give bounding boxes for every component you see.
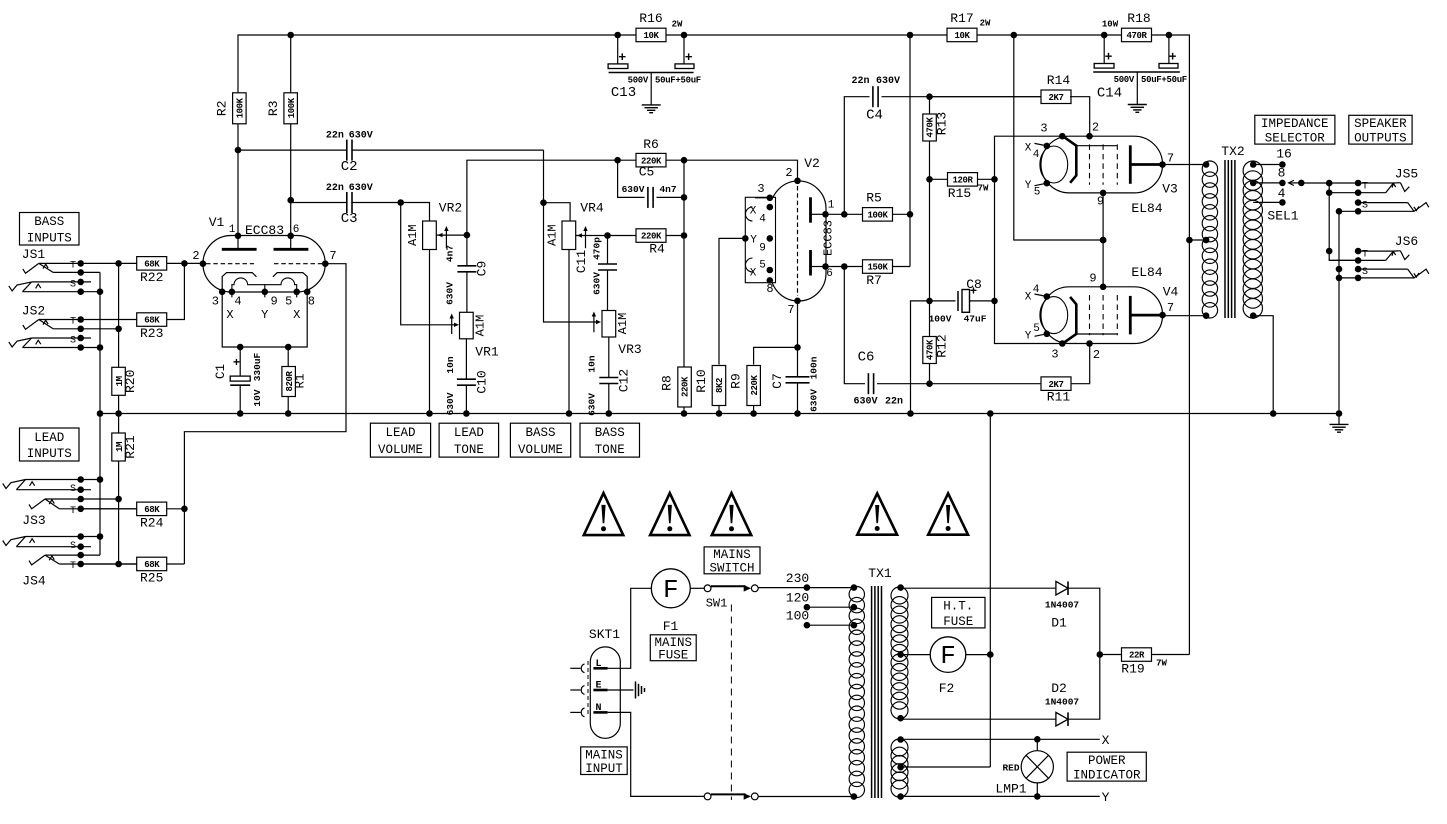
potentiometer VR1 bbox=[460, 312, 474, 339]
svg-text:T: T bbox=[1362, 182, 1368, 193]
V1 heater pin stubs bbox=[231, 292, 233, 298]
svg-text:N: N bbox=[595, 703, 601, 714]
svg-text:1N4007: 1N4007 bbox=[1045, 600, 1080, 611]
jack JS2 tip contact bbox=[39, 319, 81, 321]
resistor R24 bbox=[81, 508, 185, 510]
tube V4 envelope bbox=[1041, 287, 1163, 344]
resistor R21 bbox=[112, 433, 126, 461]
svg-text:630V: 630V bbox=[592, 272, 603, 295]
wire HT bot to D2 bbox=[901, 718, 1056, 720]
svg-text:5: 5 bbox=[759, 260, 766, 272]
svg-text:R16: R16 bbox=[639, 11, 662, 26]
label SPEAKER OUTPUTS bbox=[1349, 115, 1412, 144]
resistor R10 bbox=[712, 366, 726, 406]
node TX2 sec top bbox=[1250, 161, 1257, 168]
svg-text:Y: Y bbox=[1025, 180, 1032, 192]
V2 pin 1 bbox=[822, 211, 829, 218]
node R12 bottom bbox=[926, 380, 933, 387]
svg-text:68K: 68K bbox=[144, 505, 160, 515]
svg-text:BASS: BASS bbox=[525, 426, 555, 440]
transformer TX1 heater secondary bbox=[891, 739, 908, 756]
V3 cathode circle bbox=[1040, 146, 1068, 183]
jack JS3 tip switch bbox=[45, 498, 119, 500]
V2 anode b bbox=[809, 250, 812, 276]
svg-text:MAINS: MAINS bbox=[585, 748, 623, 762]
svg-text:100K: 100K bbox=[867, 211, 888, 221]
V2 grid dashes bbox=[797, 186, 799, 296]
jack JS2 sleeve switch bbox=[23, 347, 101, 349]
jack JS6 sleeve contact bbox=[1358, 268, 1408, 270]
jack JS5 tip plug bbox=[1393, 182, 1400, 184]
svg-text:TX2: TX2 bbox=[1221, 144, 1244, 159]
jack JS1 tip contact bbox=[39, 262, 81, 264]
svg-text:SKT1: SKT1 bbox=[589, 627, 620, 642]
svg-text:630V: 630V bbox=[445, 282, 456, 305]
node R16 right bbox=[681, 32, 688, 39]
V1 grid a dashes bbox=[206, 263, 254, 265]
node C12 gnd bbox=[606, 410, 613, 417]
wire B+ riser bbox=[1188, 240, 1190, 655]
svg-text:LMP1: LMP1 bbox=[995, 782, 1026, 797]
svg-text:R12: R12 bbox=[935, 334, 950, 357]
wire N to SW1 bottom bbox=[608, 712, 705, 796]
svg-text:220K: 220K bbox=[750, 375, 760, 396]
node lamp bottom bbox=[1034, 793, 1041, 800]
resistor R14 bbox=[930, 96, 1043, 98]
resistor R25 bbox=[81, 563, 185, 565]
svg-text:R5: R5 bbox=[866, 191, 882, 206]
svg-text:TONE: TONE bbox=[595, 443, 625, 457]
capacitor C11 bbox=[607, 236, 609, 264]
svg-text:A1M: A1M bbox=[406, 224, 420, 246]
svg-text:150K: 150K bbox=[867, 263, 888, 273]
capacitor C14 bbox=[1103, 35, 1105, 64]
svg-text:VR2: VR2 bbox=[439, 201, 462, 216]
potentiometer VR4 bbox=[562, 221, 576, 250]
svg-text:22n: 22n bbox=[326, 183, 344, 194]
V1 cathode a bbox=[222, 273, 256, 292]
capacitor C5 bbox=[618, 160, 645, 197]
wire HT rail segment 4 bbox=[1169, 35, 1190, 240]
wire CT stub bbox=[1189, 239, 1206, 241]
V1 pin 1 bbox=[235, 233, 242, 240]
svg-text:SW1: SW1 bbox=[706, 597, 728, 611]
wire 100 line bbox=[807, 624, 854, 626]
svg-text:7: 7 bbox=[1167, 152, 1174, 166]
SKT1 dashed link bbox=[587, 661, 589, 716]
resistor R9 bbox=[754, 347, 798, 364]
V3 pin dots bbox=[1059, 133, 1066, 140]
svg-text:R13: R13 bbox=[935, 112, 950, 135]
svg-text:INPUT: INPUT bbox=[585, 762, 623, 776]
svg-text:2W: 2W bbox=[672, 20, 683, 30]
svg-text:INPUTS: INPUTS bbox=[27, 231, 72, 245]
wire V3 pin9 down bbox=[1102, 193, 1104, 240]
svg-text:C4: C4 bbox=[866, 108, 883, 124]
svg-text:R11: R11 bbox=[1047, 390, 1071, 405]
svg-text:10n: 10n bbox=[445, 356, 456, 373]
svg-text:C3: C3 bbox=[341, 211, 358, 227]
svg-text:220K: 220K bbox=[641, 232, 662, 242]
resistor R19 bbox=[1100, 654, 1122, 656]
svg-text:VOLUME: VOLUME bbox=[518, 443, 563, 457]
svg-text:R10: R10 bbox=[694, 369, 709, 392]
lamp LMP1 bbox=[1036, 739, 1038, 750]
wire jack T bus lower bbox=[1329, 251, 1358, 260]
ground C13 bbox=[650, 83, 652, 105]
svg-text:INPUTS: INPUTS bbox=[27, 447, 72, 461]
wire bus2 upper x118.6 bbox=[118, 263, 120, 367]
node TX2 prim top bbox=[1203, 161, 1210, 168]
node TX2 sec bottom bbox=[1250, 312, 1257, 319]
node R15 right bbox=[991, 176, 998, 183]
resistor R4 bbox=[608, 235, 685, 237]
V4 grid g1 bbox=[1063, 297, 1076, 343]
svg-text:A1M: A1M bbox=[616, 313, 630, 335]
svg-text:F: F bbox=[663, 575, 679, 605]
fuse F1 bbox=[651, 569, 690, 608]
svg-text:4: 4 bbox=[1278, 186, 1286, 201]
V3 g3 tie bbox=[1076, 145, 1117, 147]
svg-text:630V: 630V bbox=[445, 392, 456, 415]
wire C2 to chainB bbox=[543, 150, 545, 203]
svg-text:8: 8 bbox=[1278, 166, 1286, 181]
svg-text:2: 2 bbox=[1092, 121, 1099, 135]
svg-text:S: S bbox=[1362, 201, 1368, 212]
svg-text:S: S bbox=[70, 541, 76, 552]
wire C8 left to gnd bbox=[911, 301, 930, 414]
resistor R2 bbox=[233, 93, 247, 124]
svg-text:C6: C6 bbox=[858, 350, 875, 366]
V2 heater box bbox=[745, 197, 775, 282]
svg-text:F1: F1 bbox=[663, 619, 679, 634]
label MAINS SWITCH bbox=[704, 547, 760, 574]
wire R19 to B+ riser bbox=[1152, 654, 1190, 656]
node R3-C3 tap bbox=[287, 197, 294, 204]
svg-text:T: T bbox=[70, 317, 76, 328]
svg-text:VR4: VR4 bbox=[580, 201, 604, 216]
node R17 left bbox=[907, 32, 914, 39]
label MAINS INPUT bbox=[581, 747, 628, 775]
svg-text:X: X bbox=[226, 308, 233, 322]
svg-text:50uF+50uF: 50uF+50uF bbox=[1141, 75, 1187, 85]
jack JS5 tip switch bbox=[1329, 192, 1386, 194]
svg-text:MAINS: MAINS bbox=[713, 548, 751, 562]
svg-text:630V: 630V bbox=[349, 183, 373, 194]
svg-text:22n: 22n bbox=[885, 397, 903, 408]
svg-text:C1: C1 bbox=[214, 364, 228, 379]
resistor R20 bbox=[112, 367, 126, 395]
svg-text:+: + bbox=[618, 50, 626, 65]
svg-text:470R: 470R bbox=[1126, 31, 1147, 41]
wire L to F1 bbox=[608, 588, 652, 668]
jack JS1 sleeve switch bbox=[23, 291, 101, 293]
svg-text:F2: F2 bbox=[939, 681, 955, 696]
capacitor C4 bbox=[872, 86, 874, 107]
wire jack S bus bbox=[1338, 211, 1340, 413]
svg-text:Y: Y bbox=[261, 308, 268, 322]
svg-text:10K: 10K bbox=[954, 31, 970, 41]
resistor R11 bbox=[930, 383, 1042, 385]
svg-text:7: 7 bbox=[787, 303, 794, 317]
label LEAD INPUTS bbox=[20, 428, 80, 461]
svg-text:SELECTOR: SELECTOR bbox=[1265, 131, 1326, 145]
node R13 top bbox=[926, 93, 933, 100]
jack JS4 tip plug bbox=[29, 555, 45, 565]
svg-text:9: 9 bbox=[1089, 272, 1096, 286]
jack JS6 sleeve switch bbox=[1339, 277, 1414, 279]
wire R3 riser top bbox=[290, 35, 292, 93]
label H.T. FUSE bbox=[932, 597, 985, 628]
ground symbol right bbox=[1336, 410, 1343, 417]
jack JS1 tip switch bbox=[53, 271, 100, 273]
wire F2 to gnd riser bbox=[966, 654, 991, 656]
svg-text:8: 8 bbox=[766, 282, 773, 296]
node R18 right bbox=[1166, 32, 1173, 39]
wire X line bbox=[901, 738, 1100, 740]
jack JS4 sleeve contact bbox=[26, 536, 101, 538]
jack JS4 sleeve switch bbox=[16, 546, 91, 548]
svg-text:S: S bbox=[1362, 267, 1368, 278]
resistor R22 bbox=[81, 262, 203, 264]
svg-text:SWITCH: SWITCH bbox=[709, 562, 754, 576]
svg-text:100K: 100K bbox=[287, 97, 297, 118]
wire V4 pin9 up bbox=[1102, 240, 1104, 287]
svg-text:ECC83: ECC83 bbox=[245, 223, 284, 238]
wire heater CT bbox=[901, 766, 991, 768]
svg-text:JS6: JS6 bbox=[1395, 234, 1418, 249]
node R4 right bbox=[681, 232, 688, 239]
svg-text:SPEAKER: SPEAKER bbox=[1354, 117, 1407, 131]
svg-text:8K2: 8K2 bbox=[715, 378, 725, 393]
capacitor C8 bbox=[930, 300, 956, 302]
svg-text:3: 3 bbox=[212, 295, 219, 309]
svg-text:10V: 10V bbox=[252, 389, 263, 406]
svg-text:OUTPUTS: OUTPUTS bbox=[1354, 131, 1407, 145]
resistor R5 bbox=[863, 213, 910, 215]
svg-text:C9: C9 bbox=[475, 261, 490, 277]
wire D1 to node bbox=[1068, 588, 1100, 654]
svg-text:T: T bbox=[1362, 250, 1368, 261]
V3 anode bbox=[1129, 145, 1132, 184]
node C8 left bbox=[926, 298, 933, 305]
svg-text:+: + bbox=[970, 285, 977, 299]
capacitor C6 bbox=[867, 373, 869, 394]
svg-text:JS2: JS2 bbox=[22, 304, 45, 319]
resistor R8 bbox=[678, 367, 692, 407]
wire sec bottom to gnd bbox=[1253, 316, 1273, 414]
jack JS2 tip plug bbox=[23, 320, 39, 330]
svg-text:X: X bbox=[1025, 143, 1032, 155]
wire to VR4 top bbox=[544, 203, 571, 221]
svg-text:H.T.: H.T. bbox=[943, 600, 973, 614]
wire C4 left bbox=[844, 97, 869, 215]
jack JS3 sleeve plug bbox=[3, 480, 26, 489]
transformer TX1 HT secondary bbox=[891, 587, 908, 604]
wire HT rail segment 2 bbox=[684, 34, 910, 36]
label BASS INPUTS bbox=[20, 213, 80, 246]
capacitor C12 bbox=[608, 337, 610, 377]
svg-text:6: 6 bbox=[293, 224, 300, 236]
svg-text:Y: Y bbox=[1025, 331, 1032, 343]
wire R11 to V4 grid bbox=[1071, 344, 1090, 384]
V4 pin dots bbox=[1059, 340, 1066, 347]
warning triangle 4 bbox=[857, 493, 897, 534]
svg-text:D2: D2 bbox=[1051, 681, 1067, 696]
wire HT rail segment 3 bbox=[1014, 34, 1104, 36]
svg-text:630V: 630V bbox=[853, 397, 877, 408]
svg-text:630V: 630V bbox=[622, 184, 645, 195]
node R8 gnd bbox=[681, 410, 688, 417]
svg-text:VOLUME: VOLUME bbox=[378, 443, 423, 457]
wire D2 to node bbox=[1068, 655, 1100, 720]
node rectifier out bbox=[1097, 651, 1104, 658]
wire V4 cathode bbox=[995, 301, 1064, 344]
svg-text:C2: C2 bbox=[341, 159, 358, 175]
selector SEL1 bbox=[1298, 180, 1305, 187]
svg-text:10n: 10n bbox=[587, 355, 598, 372]
label MAINS FUSE bbox=[650, 635, 696, 661]
svg-text:7: 7 bbox=[329, 249, 336, 263]
svg-text:630V: 630V bbox=[809, 389, 820, 412]
V1 pin 6 bbox=[287, 233, 294, 240]
svg-text:68K: 68K bbox=[144, 316, 160, 326]
node R22 out bbox=[181, 260, 188, 267]
jack JS4 tip contact bbox=[59, 563, 166, 565]
node 230 bbox=[804, 584, 811, 591]
node VR4 wiper junction bbox=[604, 232, 611, 239]
wire 120 line bbox=[807, 606, 854, 608]
wire lead mix riser bbox=[184, 264, 346, 564]
SKT1 pin E bbox=[593, 689, 607, 692]
svg-text:POWER: POWER bbox=[1088, 754, 1126, 768]
svg-text:+: + bbox=[1105, 50, 1113, 65]
svg-text:L: L bbox=[595, 659, 601, 670]
node V4 screen bbox=[1100, 237, 1107, 244]
jack JS6 tip contact bbox=[1358, 250, 1393, 252]
svg-text:E: E bbox=[595, 681, 601, 692]
svg-text:9: 9 bbox=[270, 295, 277, 309]
svg-text:C10: C10 bbox=[475, 370, 490, 393]
node C10 gnd bbox=[463, 410, 470, 417]
svg-text:X: X bbox=[750, 268, 757, 280]
jack JS3 tip contact bbox=[59, 508, 166, 510]
VR4 wiper bbox=[576, 235, 608, 237]
svg-text:+: + bbox=[233, 356, 240, 370]
svg-text:R19: R19 bbox=[1121, 662, 1144, 677]
jack JS4 tip switch bbox=[45, 554, 100, 556]
svg-text:22n: 22n bbox=[851, 76, 869, 87]
label LEAD TONE bbox=[439, 423, 499, 457]
jack JS5 sleeve switch bbox=[1339, 210, 1414, 212]
svg-text:1N4007: 1N4007 bbox=[1045, 697, 1080, 708]
svg-text:10W: 10W bbox=[1102, 20, 1119, 30]
svg-text:16: 16 bbox=[1276, 147, 1292, 162]
jack JS5 sleeve contact bbox=[1358, 202, 1408, 204]
svg-text:V4: V4 bbox=[1163, 285, 1179, 300]
potentiometer VR2 bbox=[423, 221, 437, 250]
svg-text:2K7: 2K7 bbox=[1048, 380, 1063, 390]
svg-text:BASS: BASS bbox=[595, 426, 625, 440]
svg-text:4: 4 bbox=[234, 295, 241, 309]
V4 anode bbox=[1129, 296, 1132, 335]
node C3 out junction bbox=[397, 199, 404, 206]
jack JS2 tip switch bbox=[53, 328, 119, 330]
jack JS1 tip plug bbox=[23, 263, 39, 273]
jack JS6 tip plug bbox=[1393, 250, 1400, 252]
SKT1 earth wire bbox=[608, 689, 634, 691]
node R6 right bbox=[681, 157, 688, 164]
diode D1 bbox=[1056, 581, 1068, 595]
node R1 top bbox=[285, 344, 292, 351]
svg-text:Y: Y bbox=[750, 235, 757, 247]
svg-text:D1: D1 bbox=[1051, 616, 1067, 631]
svg-text:LEAD: LEAD bbox=[385, 426, 415, 440]
svg-text:330uF: 330uF bbox=[252, 352, 263, 381]
capacitor C13 bbox=[617, 35, 619, 64]
transformer TX2 primary bbox=[1202, 161, 1217, 176]
wire V1 cathode box bbox=[222, 292, 307, 347]
ground C14 bbox=[1136, 83, 1138, 105]
svg-text:120: 120 bbox=[786, 590, 809, 605]
node bus1 gnd bbox=[97, 410, 104, 417]
wire to VR3 wiper bbox=[544, 203, 598, 322]
svg-text:IMPEDANCE: IMPEDANCE bbox=[1261, 117, 1329, 131]
node V3 screen bbox=[1100, 237, 1107, 244]
svg-text:68K: 68K bbox=[144, 260, 160, 270]
node C2 junction bbox=[540, 199, 547, 206]
svg-text:2: 2 bbox=[192, 249, 199, 263]
node B+ CT junction bbox=[1186, 237, 1193, 244]
label IMPEDANCE SELECTOR bbox=[1255, 115, 1335, 144]
wire 16 tap bbox=[1253, 164, 1282, 166]
wire 8 tap bbox=[1253, 182, 1282, 184]
svg-text:7W: 7W bbox=[978, 184, 989, 194]
svg-text:TX1: TX1 bbox=[868, 566, 892, 581]
resistor R13 bbox=[929, 97, 931, 115]
V1 anode b bbox=[274, 248, 309, 251]
node 120 bbox=[804, 604, 811, 611]
svg-text:1: 1 bbox=[828, 200, 835, 212]
capacitor C10 bbox=[465, 339, 467, 379]
svg-text:630V: 630V bbox=[349, 131, 373, 142]
V2 pin 6 bbox=[822, 263, 829, 270]
wire jack T bus bbox=[1328, 183, 1330, 251]
svg-text:Y: Y bbox=[1102, 790, 1110, 805]
svg-text:7W: 7W bbox=[1156, 659, 1167, 669]
node VR4 gnd bbox=[566, 410, 573, 417]
wire F1 to SW1 bbox=[690, 587, 704, 589]
svg-text:10K: 10K bbox=[643, 31, 659, 41]
svg-text:X: X bbox=[293, 308, 300, 322]
VR3 wiper arrows bbox=[593, 314, 595, 333]
svg-text:SEL1: SEL1 bbox=[1267, 209, 1298, 224]
svg-text:47uF: 47uF bbox=[964, 314, 987, 325]
svg-text:100: 100 bbox=[786, 608, 809, 623]
V1 heater b hump bbox=[265, 278, 297, 292]
svg-text:JS5: JS5 bbox=[1395, 167, 1418, 182]
wire gnd riser bbox=[989, 414, 991, 768]
svg-text:EL84: EL84 bbox=[1131, 265, 1162, 280]
resistor R15 bbox=[930, 178, 995, 180]
wire R6 node to V2 grid bbox=[684, 160, 798, 180]
wire C3node to VR1 wiper bbox=[401, 203, 455, 325]
svg-text:C12: C12 bbox=[617, 369, 632, 392]
V3 grid g1 bbox=[1063, 137, 1076, 183]
node C6 tap bbox=[841, 263, 848, 270]
V3 screen g2 dashes bbox=[1089, 144, 1091, 184]
svg-text:68K: 68K bbox=[144, 560, 160, 570]
